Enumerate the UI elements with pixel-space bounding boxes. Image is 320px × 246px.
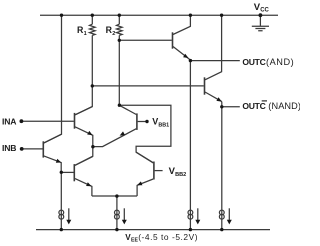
node INB terminal bbox=[20, 147, 24, 151]
node VCC rail at Q6 collector bbox=[220, 14, 223, 17]
current source I4 arrowhead bbox=[227, 220, 232, 225]
current source I2 arrow stem bbox=[123, 208, 125, 220]
transistor Q2 collector bbox=[119, 105, 136, 114]
current source I2 bbox=[115, 210, 120, 215]
wire OUTC (AND) lead bbox=[190, 60, 239, 62]
wire OUTC-bar (NAND) lead bbox=[222, 106, 240, 108]
node VEE rail at I3 bbox=[189, 228, 192, 231]
node lower pair emitter bus junction bbox=[115, 194, 118, 197]
transistor Q5 emitter bbox=[173, 47, 190, 61]
svg-text:OUTC: OUTC bbox=[242, 57, 265, 67]
node INA terminal bbox=[20, 119, 24, 123]
wire OUTC-bar pulldown to current source I4 bbox=[221, 102, 223, 230]
svg-text:2: 2 bbox=[112, 31, 115, 37]
transistor Q4 collector bbox=[136, 152, 153, 163]
svg-text:INA: INA bbox=[2, 116, 16, 126]
wire VCC top rail bbox=[40, 14, 278, 16]
current source I3 arrow stem bbox=[197, 208, 199, 220]
current source I2 arrowhead bbox=[122, 220, 127, 225]
svg-text:OUTC: OUTC bbox=[242, 101, 265, 111]
wire Q3 collector riser to VCC rail bbox=[44, 15, 62, 143]
current source I1 arrowhead bbox=[66, 220, 71, 225]
node VEE rail at I1 bbox=[60, 228, 63, 231]
node VEE rail at I2 bbox=[115, 228, 118, 231]
transistor Q4 emitter bbox=[137, 179, 153, 196]
wire Q4 base lead to VBB2 bbox=[155, 170, 163, 172]
transistor Q2 emitter arrowhead bbox=[120, 131, 125, 135]
wire bus to current source I2 bbox=[116, 196, 118, 230]
wire INA lead to Q1 base bbox=[21, 120, 74, 122]
wire OUTC pulldown to current source I3 bbox=[189, 61, 191, 230]
transistor Q6 (NAND output emitter follower) base bar bbox=[204, 77, 206, 94]
transistor QB2 (input B, lower current switch) base bar bbox=[73, 164, 75, 181]
node VCC rail at R1 bbox=[91, 14, 94, 17]
wire Q3 emitter node to QB2 base bbox=[61, 171, 73, 173]
node R2 to Q5 base junction bbox=[118, 39, 121, 42]
wire R2 bottom lead bbox=[118, 35, 120, 105]
transistor QB2 collector bbox=[75, 156, 93, 165]
transistor Q1 emitter arrowhead bbox=[87, 131, 92, 135]
current source I3 arrowhead bbox=[195, 220, 200, 225]
node OUTC-bar bbox=[220, 105, 223, 108]
transistor Q3 collector bbox=[44, 134, 62, 143]
transistor Q5 emitter arrowhead bbox=[183, 54, 188, 58]
transistor Q6 emitter bbox=[205, 92, 222, 102]
svg-text:1: 1 bbox=[84, 31, 87, 37]
svg-text:(NAND): (NAND) bbox=[268, 101, 300, 111]
current source I3 bbox=[188, 210, 193, 215]
wire Q2 base lead to VBB1 terminal bbox=[138, 121, 147, 123]
node OUTC bbox=[189, 59, 192, 62]
node upper pair common emitter bbox=[91, 145, 94, 148]
current source I4 bbox=[219, 210, 224, 215]
svg-text:(AND): (AND) bbox=[266, 57, 294, 67]
transistor Q1 collector bbox=[75, 107, 92, 115]
wire VCC stub bbox=[259, 15, 261, 26]
wire R2 top lead bbox=[118, 15, 120, 24]
node VCC rail at R2 bbox=[118, 14, 121, 17]
node R1 to Q6 base junction bbox=[91, 84, 94, 87]
transistor Q5 (AND output emitter follower) base bar bbox=[172, 32, 174, 48]
svg-text:BB2: BB2 bbox=[175, 172, 186, 178]
node VCC rail at Q3 collector bbox=[60, 14, 63, 17]
transistor QB2 emitter bbox=[75, 179, 92, 196]
node Q3 emitter junction bbox=[60, 171, 63, 174]
wire R2 node to Q5 base bbox=[119, 39, 172, 41]
wire INB lead to Q3 base bbox=[22, 148, 43, 150]
transistor Q1 emitter bbox=[75, 127, 93, 166]
current source I1 bbox=[59, 210, 64, 215]
transistor Q2 emitter bbox=[93, 129, 136, 147]
ground symbol at VCC bbox=[252, 26, 269, 31]
wire R1 node to Q6 base bbox=[92, 85, 204, 87]
transistor Q3 (INB emitter follower) base bar bbox=[42, 141, 44, 157]
wire R1 bottom lead to Q1 collector bbox=[75, 35, 92, 114]
svg-text:(-4.5 to -5.2V): (-4.5 to -5.2V) bbox=[138, 232, 198, 242]
transistor Q3 emitter arrowhead bbox=[56, 159, 61, 163]
wire R1 top lead bbox=[91, 15, 93, 24]
transistor Q6 emitter arrowhead bbox=[216, 97, 221, 101]
current source I4 arrow stem bbox=[228, 208, 230, 220]
node VBB1 terminal bbox=[145, 120, 148, 123]
transistor Q1 (input A, upper current switch) base bar bbox=[74, 113, 76, 129]
transistor Q6 collector bbox=[205, 15, 222, 80]
wire lower pair emitter bus bbox=[92, 195, 137, 197]
transistor Q4 (VBB2 reference, lower current switch) base bar bbox=[153, 162, 155, 180]
transistor Q2 (VBB1 reference, upper current switch) base bar bbox=[136, 113, 138, 129]
wire R2 node to Q4 collector bbox=[119, 105, 171, 163]
node VEE rail at I4 bbox=[220, 228, 223, 231]
svg-text:BB1: BB1 bbox=[158, 122, 169, 128]
node VCC terminal bbox=[259, 13, 263, 17]
node VCC rail at Q5 collector bbox=[189, 14, 192, 17]
svg-text:CC: CC bbox=[260, 7, 269, 13]
wire Q3 emitter node to current source I1 bbox=[60, 172, 62, 229]
current source I1 arrow stem bbox=[68, 208, 70, 220]
transistor Q5 collector bbox=[173, 15, 190, 34]
wire VEE bottom rail bbox=[36, 229, 270, 231]
resistor R1 bbox=[90, 24, 96, 35]
resistor R2 bbox=[117, 24, 123, 35]
svg-text:INB: INB bbox=[2, 143, 16, 153]
node R2 bottom junction bbox=[118, 104, 121, 107]
transistor QB2 emitter arrowhead bbox=[86, 182, 91, 186]
transistor Q3 emitter bbox=[44, 156, 61, 172]
transistor Q4 emitter arrowhead bbox=[137, 181, 142, 185]
